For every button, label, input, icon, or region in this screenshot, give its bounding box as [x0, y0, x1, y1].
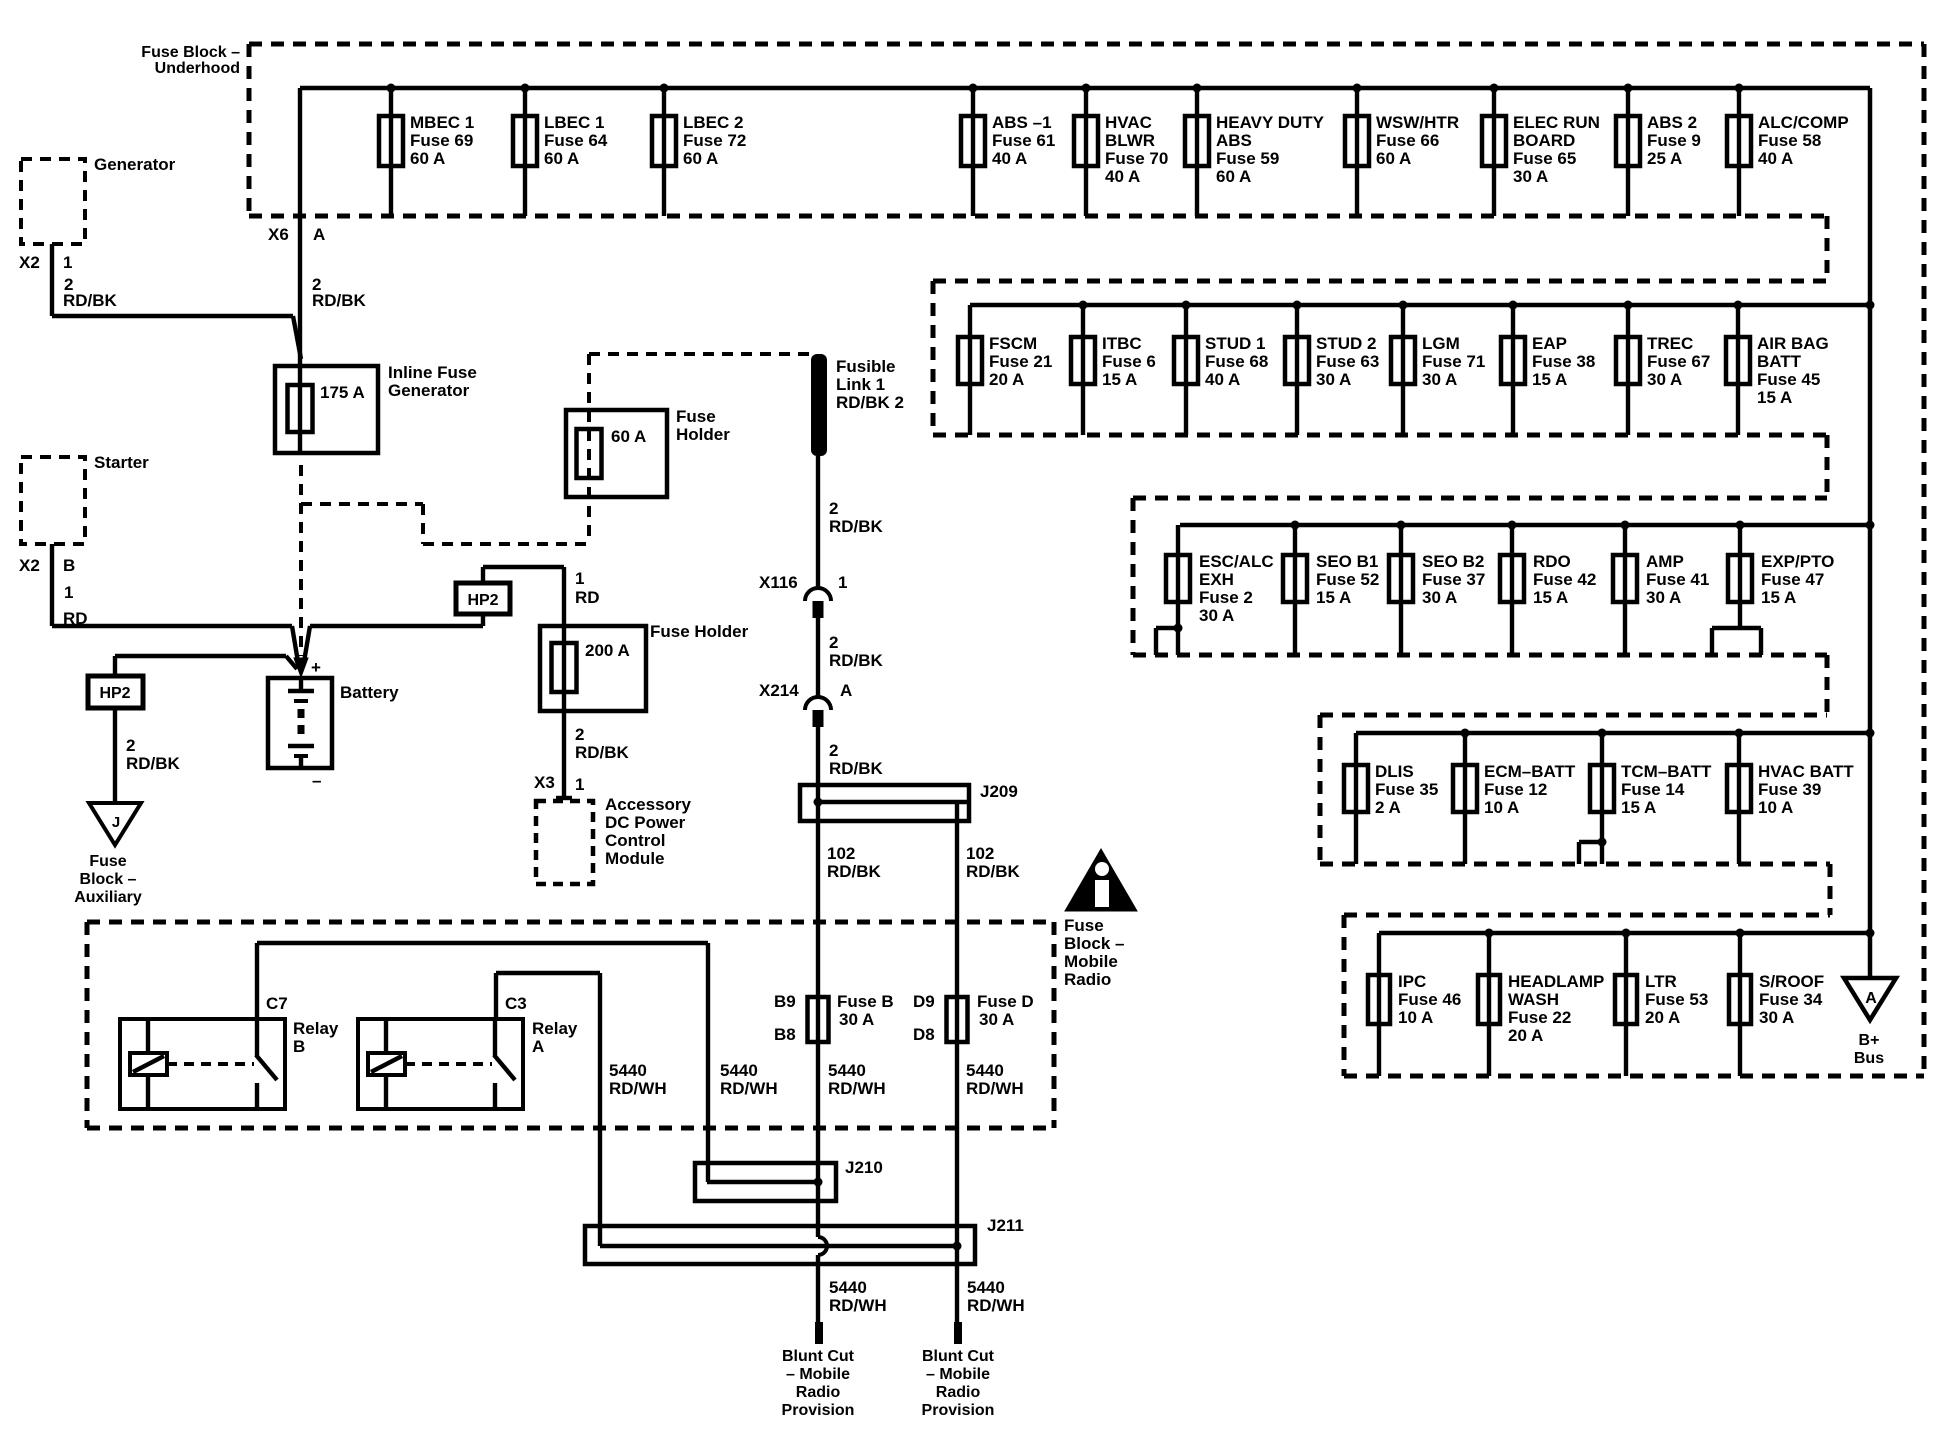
svg-text:ABS 2: ABS 2	[1647, 113, 1697, 132]
svg-text:LGM: LGM	[1422, 334, 1460, 353]
svg-text:Fuse Holder: Fuse Holder	[650, 622, 749, 641]
svg-text:30 A: 30 A	[1316, 370, 1351, 389]
svg-text:1: 1	[64, 583, 73, 602]
svg-text:Fuse 67: Fuse 67	[1647, 352, 1710, 371]
svg-text:Fuse 68: Fuse 68	[1205, 352, 1268, 371]
svg-text:Battery: Battery	[340, 683, 399, 702]
svg-text:1: 1	[575, 775, 584, 794]
svg-text:30 A: 30 A	[1759, 1008, 1794, 1027]
svg-text:Fuse 64: Fuse 64	[544, 131, 608, 150]
svg-text:Fuse 53: Fuse 53	[1645, 990, 1708, 1009]
svg-text:X214: X214	[759, 681, 799, 700]
svg-text:10 A: 10 A	[1484, 798, 1519, 817]
svg-text:RD/BK: RD/BK	[827, 862, 882, 881]
svg-text:30 A: 30 A	[839, 1010, 874, 1029]
svg-text:5440: 5440	[720, 1061, 758, 1080]
svg-text:ESC/ALC: ESC/ALC	[1199, 552, 1274, 571]
svg-text:RD/BK: RD/BK	[829, 759, 884, 778]
svg-text:Fuse 35: Fuse 35	[1375, 780, 1438, 799]
svg-text:D9: D9	[913, 992, 935, 1011]
svg-text:Fuse 39: Fuse 39	[1758, 780, 1821, 799]
svg-text:Fuse 70: Fuse 70	[1105, 149, 1168, 168]
svg-text:J210: J210	[845, 1158, 883, 1177]
svg-text:Module: Module	[605, 849, 665, 868]
svg-text:102: 102	[966, 844, 994, 863]
svg-text:5440: 5440	[829, 1278, 867, 1297]
svg-text:RD/BK 2: RD/BK 2	[836, 393, 904, 412]
svg-text:10 A: 10 A	[1398, 1008, 1433, 1027]
svg-text:Generator: Generator	[94, 155, 176, 174]
svg-text:LBEC 1: LBEC 1	[544, 113, 604, 132]
svg-text:5440: 5440	[967, 1278, 1005, 1297]
svg-text:2: 2	[829, 499, 838, 518]
svg-text:Fuse 52: Fuse 52	[1316, 570, 1379, 589]
svg-text:RD/WH: RD/WH	[720, 1079, 778, 1098]
svg-text:30 A: 30 A	[1199, 606, 1234, 625]
svg-text:BATT: BATT	[1757, 352, 1802, 371]
svg-text:ABS: ABS	[1216, 131, 1252, 150]
svg-text:RD/BK: RD/BK	[312, 291, 367, 310]
svg-text:2: 2	[829, 633, 838, 652]
svg-text:ITBC: ITBC	[1102, 334, 1142, 353]
svg-text:Radio: Radio	[1064, 970, 1111, 989]
svg-text:Fuse 47: Fuse 47	[1761, 570, 1824, 589]
svg-text:HP2: HP2	[99, 685, 130, 702]
svg-text:20 A: 20 A	[1508, 1026, 1543, 1045]
svg-text:10 A: 10 A	[1758, 798, 1793, 817]
svg-text:Fuse 41: Fuse 41	[1646, 570, 1709, 589]
svg-text:Fuse 22: Fuse 22	[1508, 1008, 1571, 1027]
svg-text:1: 1	[63, 253, 72, 272]
svg-text:60 A: 60 A	[410, 149, 445, 168]
svg-text:15 A: 15 A	[1533, 588, 1568, 607]
svg-text:60 A: 60 A	[611, 427, 646, 446]
svg-text:Relay: Relay	[293, 1019, 339, 1038]
svg-text:Fuse 12: Fuse 12	[1484, 780, 1547, 799]
svg-text:SEO B1: SEO B1	[1316, 552, 1378, 571]
svg-text:RD/BK: RD/BK	[966, 862, 1021, 881]
svg-text:Blunt Cut: Blunt Cut	[922, 1348, 995, 1365]
svg-text:BLWR: BLWR	[1105, 131, 1155, 150]
svg-text:RD: RD	[575, 588, 600, 607]
svg-text:J209: J209	[980, 782, 1018, 801]
svg-text:Underhood: Underhood	[155, 60, 240, 77]
svg-text:– Mobile: – Mobile	[926, 1366, 990, 1383]
svg-text:102: 102	[827, 844, 855, 863]
svg-text:Accessory: Accessory	[605, 795, 692, 814]
svg-text:X116: X116	[759, 573, 798, 592]
svg-text:20 A: 20 A	[989, 370, 1024, 389]
svg-text:ALC/COMP: ALC/COMP	[1758, 113, 1849, 132]
svg-text:Fuse 42: Fuse 42	[1533, 570, 1596, 589]
svg-text:5440: 5440	[828, 1061, 866, 1080]
svg-text:RD/WH: RD/WH	[967, 1296, 1025, 1315]
svg-text:+: +	[311, 658, 321, 677]
svg-text:C7: C7	[266, 994, 288, 1013]
svg-text:RD/WH: RD/WH	[966, 1079, 1024, 1098]
svg-text:Mobile: Mobile	[1064, 952, 1118, 971]
svg-text:ECM–BATT: ECM–BATT	[1484, 762, 1576, 781]
svg-text:Fuse 34: Fuse 34	[1759, 990, 1823, 1009]
svg-text:TCM–BATT: TCM–BATT	[1621, 762, 1712, 781]
svg-text:RD/BK: RD/BK	[829, 517, 884, 536]
svg-text:A: A	[840, 681, 852, 700]
svg-text:SEO B2: SEO B2	[1422, 552, 1484, 571]
svg-text:Fusible: Fusible	[836, 357, 896, 376]
svg-text:FSCM: FSCM	[989, 334, 1037, 353]
svg-text:HEADLAMP: HEADLAMP	[1508, 972, 1604, 991]
svg-text:60 A: 60 A	[544, 149, 579, 168]
svg-text:C3: C3	[505, 994, 527, 1013]
svg-text:Holder: Holder	[676, 425, 730, 444]
svg-text:A: A	[1865, 990, 1877, 1007]
svg-text:Fuse 14: Fuse 14	[1621, 780, 1685, 799]
svg-text:WSW/HTR: WSW/HTR	[1376, 113, 1459, 132]
svg-text:Fuse 65: Fuse 65	[1513, 149, 1576, 168]
svg-text:Inline Fuse: Inline Fuse	[388, 363, 477, 382]
svg-text:X6: X6	[268, 225, 289, 244]
svg-text:J: J	[112, 814, 120, 831]
svg-text:STUD 2: STUD 2	[1316, 334, 1376, 353]
svg-text:B+: B+	[1859, 1032, 1880, 1049]
svg-text:RD/BK: RD/BK	[126, 754, 181, 773]
svg-text:B: B	[63, 556, 75, 575]
svg-text:Generator: Generator	[388, 381, 470, 400]
svg-text:RD/WH: RD/WH	[828, 1079, 886, 1098]
svg-text:1: 1	[838, 573, 847, 592]
svg-text:B: B	[293, 1037, 305, 1056]
svg-text:STUD 1: STUD 1	[1205, 334, 1265, 353]
svg-text:40 A: 40 A	[1205, 370, 1240, 389]
svg-text:2 A: 2 A	[1375, 798, 1401, 817]
svg-text:TREC: TREC	[1647, 334, 1693, 353]
svg-text:15 A: 15 A	[1316, 588, 1351, 607]
svg-text:Fuse 71: Fuse 71	[1422, 352, 1485, 371]
svg-text:RD/BK: RD/BK	[829, 651, 884, 670]
svg-text:15 A: 15 A	[1532, 370, 1567, 389]
svg-text:Blunt Cut: Blunt Cut	[782, 1348, 855, 1365]
svg-text:HP2: HP2	[467, 592, 498, 609]
svg-text:15 A: 15 A	[1621, 798, 1656, 817]
svg-text:RD/WH: RD/WH	[829, 1296, 887, 1315]
svg-text:Fuse 66: Fuse 66	[1376, 131, 1439, 150]
svg-text:Fuse 58: Fuse 58	[1758, 131, 1821, 150]
svg-text:40 A: 40 A	[1758, 149, 1793, 168]
svg-text:60 A: 60 A	[1376, 149, 1411, 168]
svg-text:ABS –1: ABS –1	[992, 113, 1052, 132]
svg-text:ELEC RUN: ELEC RUN	[1513, 113, 1600, 132]
svg-text:Fuse 45: Fuse 45	[1757, 370, 1820, 389]
svg-text:RD/BK: RD/BK	[63, 291, 118, 310]
svg-text:Fuse 37: Fuse 37	[1422, 570, 1485, 589]
svg-text:AIR BAG: AIR BAG	[1757, 334, 1829, 353]
svg-text:Fuse 72: Fuse 72	[683, 131, 746, 150]
svg-text:Radio: Radio	[796, 1384, 841, 1401]
svg-text:HVAC: HVAC	[1105, 113, 1152, 132]
svg-text:Fuse 9: Fuse 9	[1647, 131, 1701, 150]
svg-text:Provision: Provision	[922, 1402, 995, 1419]
svg-text:J211: J211	[987, 1216, 1024, 1235]
svg-text:2: 2	[829, 741, 838, 760]
svg-text:WASH: WASH	[1508, 990, 1559, 1009]
svg-text:Fuse 2: Fuse 2	[1199, 588, 1253, 607]
svg-text:EXP/PTO: EXP/PTO	[1761, 552, 1834, 571]
svg-text:2: 2	[575, 725, 584, 744]
svg-text:HEAVY DUTY: HEAVY DUTY	[1216, 113, 1325, 132]
svg-text:Fuse Block –: Fuse Block –	[141, 44, 240, 61]
svg-text:Control: Control	[605, 831, 665, 850]
svg-text:Auxiliary: Auxiliary	[74, 889, 142, 906]
svg-text:1: 1	[575, 569, 584, 588]
svg-text:B8: B8	[774, 1025, 796, 1044]
svg-text:A: A	[313, 225, 325, 244]
svg-text:2: 2	[126, 736, 135, 755]
svg-text:20 A: 20 A	[1645, 1008, 1680, 1027]
svg-text:EXH: EXH	[1199, 570, 1234, 589]
svg-text:Fuse: Fuse	[676, 407, 716, 426]
svg-text:RDO: RDO	[1533, 552, 1571, 571]
svg-text:15 A: 15 A	[1757, 388, 1792, 407]
svg-text:60 A: 60 A	[683, 149, 718, 168]
svg-text:Fuse 38: Fuse 38	[1532, 352, 1595, 371]
svg-text:Fuse: Fuse	[89, 853, 126, 870]
svg-text:15 A: 15 A	[1102, 370, 1137, 389]
svg-text:Fuse 61: Fuse 61	[992, 131, 1055, 150]
svg-text:60 A: 60 A	[1216, 167, 1251, 186]
svg-text:RD/BK: RD/BK	[575, 743, 630, 762]
svg-text:BOARD: BOARD	[1513, 131, 1575, 150]
svg-text:– Mobile: – Mobile	[786, 1366, 850, 1383]
svg-text:200 A: 200 A	[585, 641, 630, 660]
svg-text:5440: 5440	[609, 1061, 647, 1080]
svg-text:30 A: 30 A	[1422, 588, 1457, 607]
svg-text:Fuse 46: Fuse 46	[1398, 990, 1461, 1009]
svg-text:30 A: 30 A	[1422, 370, 1457, 389]
svg-text:Radio: Radio	[936, 1384, 981, 1401]
svg-text:175 A: 175 A	[320, 383, 365, 402]
svg-text:IPC: IPC	[1398, 972, 1426, 991]
svg-text:Fuse D: Fuse D	[977, 992, 1034, 1011]
svg-text:X2: X2	[19, 556, 40, 575]
svg-text:30 A: 30 A	[1646, 588, 1681, 607]
svg-text:40 A: 40 A	[992, 149, 1027, 168]
svg-text:30 A: 30 A	[1513, 167, 1548, 186]
svg-text:B9: B9	[774, 992, 796, 1011]
svg-text:RD/WH: RD/WH	[609, 1079, 667, 1098]
svg-text:HVAC BATT: HVAC BATT	[1758, 762, 1854, 781]
svg-text:X2: X2	[19, 253, 40, 272]
svg-text:Starter: Starter	[94, 453, 149, 472]
svg-text:LTR: LTR	[1645, 972, 1677, 991]
svg-text:LBEC 2: LBEC 2	[683, 113, 743, 132]
svg-text:Block –: Block –	[1064, 934, 1124, 953]
svg-text:–: –	[312, 771, 321, 790]
svg-text:Bus: Bus	[1854, 1050, 1884, 1067]
svg-text:Fuse: Fuse	[1064, 916, 1104, 935]
svg-text:MBEC 1: MBEC 1	[410, 113, 474, 132]
svg-text:15 A: 15 A	[1761, 588, 1796, 607]
svg-text:EAP: EAP	[1532, 334, 1567, 353]
svg-text:Fuse 63: Fuse 63	[1316, 352, 1379, 371]
svg-text:S/ROOF: S/ROOF	[1759, 972, 1824, 991]
svg-text:Relay: Relay	[532, 1019, 578, 1038]
svg-text:Fuse 69: Fuse 69	[410, 131, 473, 150]
svg-text:Fuse 6: Fuse 6	[1102, 352, 1156, 371]
svg-text:AMP: AMP	[1646, 552, 1684, 571]
svg-text:25 A: 25 A	[1647, 149, 1682, 168]
svg-text:Block –: Block –	[80, 871, 137, 888]
svg-text:A: A	[532, 1037, 544, 1056]
svg-text:Fuse 21: Fuse 21	[989, 352, 1052, 371]
svg-text:Link 1: Link 1	[836, 375, 885, 394]
svg-text:X3: X3	[534, 773, 555, 792]
svg-text:30 A: 30 A	[979, 1010, 1014, 1029]
svg-text:Fuse 59: Fuse 59	[1216, 149, 1279, 168]
svg-text:D8: D8	[913, 1025, 935, 1044]
svg-text:DC Power: DC Power	[605, 813, 686, 832]
svg-text:Provision: Provision	[782, 1402, 855, 1419]
svg-text:DLIS: DLIS	[1375, 762, 1414, 781]
svg-text:Fuse B: Fuse B	[837, 992, 894, 1011]
svg-text:30 A: 30 A	[1647, 370, 1682, 389]
svg-text:5440: 5440	[966, 1061, 1004, 1080]
svg-text:40 A: 40 A	[1105, 167, 1140, 186]
